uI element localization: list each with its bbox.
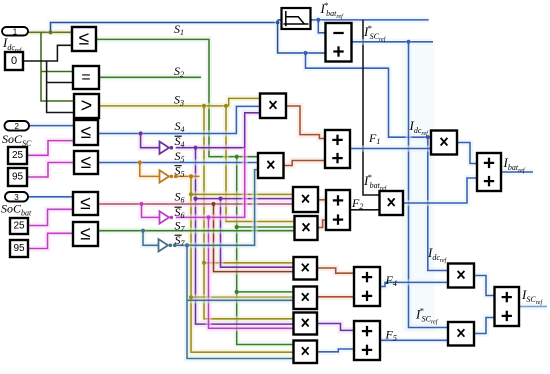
svg-text:25: 25 <box>13 221 25 232</box>
junction s7bar-down <box>185 243 189 247</box>
sum ISC <box>495 287 520 326</box>
constant 0 <box>5 52 23 70</box>
wire S6 to NOT3 <box>142 204 160 217</box>
product XD3 <box>294 313 318 335</box>
wire S4bar branch down <box>196 148 294 324</box>
wire XE1 out <box>474 276 495 296</box>
sum F4 <box>354 267 380 306</box>
wire S6 <box>98 201 293 207</box>
constant 25 bat <box>10 218 28 234</box>
junction s1-d2 <box>235 290 239 294</box>
wire S5 <box>98 159 258 165</box>
svg-text:95: 95 <box>12 172 24 183</box>
svg-text:≤: ≤ <box>81 152 91 173</box>
wire S1 branch down <box>237 157 295 345</box>
wire F2 out <box>350 209 380 211</box>
wire XE2 out <box>474 318 495 334</box>
NOT gate S6bar <box>160 211 174 223</box>
sum F1 <box>325 130 350 168</box>
wire C1 out <box>318 197 326 203</box>
junction idc-top <box>48 30 52 34</box>
wire zero vertical to EQ and GT <box>47 61 74 113</box>
junction s5-not <box>138 160 142 164</box>
junction ibat-minus <box>316 18 320 22</box>
wire D3 out <box>317 324 354 331</box>
wire XB out <box>284 161 326 166</box>
constant 95 SC <box>8 168 27 186</box>
sum F5 <box>354 321 380 360</box>
product XC2 <box>295 216 318 240</box>
product XD2 <box>294 287 318 310</box>
wire C2 out <box>318 220 327 228</box>
wire S7 <box>98 228 295 234</box>
comparator LE4 (SoCsc<=95) <box>74 151 98 174</box>
junction idc-plus <box>303 51 307 55</box>
svg-text:>: > <box>81 95 93 117</box>
svg-text:=: = <box>81 69 90 86</box>
wire c25b to LE5 <box>28 209 73 225</box>
wire S3 branch down <box>204 106 295 319</box>
product XB <box>258 153 284 178</box>
junction idc-xf1 <box>426 135 430 139</box>
comparator GT (Idc>0) <box>74 94 99 118</box>
junction isc-down <box>406 40 410 44</box>
wire Idc to XE1 <box>428 137 448 270</box>
wire D2 out <box>317 294 354 300</box>
wire filter input stub <box>278 17 282 23</box>
input port 1 <box>2 27 28 36</box>
junction s4bar-down <box>193 146 197 150</box>
wire Idc green vertical to EQ and GT <box>41 32 74 101</box>
junction s4-not <box>139 131 143 135</box>
wire S5 to NOT2 <box>140 163 160 177</box>
junction s3-c2 <box>224 104 228 108</box>
wire F4 out <box>380 282 448 286</box>
product XE2 <box>448 322 474 346</box>
wire S7 to NOT4 <box>143 231 159 246</box>
comparator LE6 (SoCbat<=95) <box>73 222 98 246</box>
wire port3 to LE5 <box>28 194 73 200</box>
svg-text:≤: ≤ <box>80 193 90 214</box>
wire XA out <box>286 106 325 139</box>
junction s6-darkred <box>211 202 215 206</box>
NOT gate S5bar <box>160 170 174 182</box>
wire S7bar <box>175 170 258 246</box>
wire port2 to LE3 <box>29 122 74 128</box>
junction s5bar-d2 <box>189 295 193 299</box>
highlight wash right column <box>402 44 435 332</box>
junction not4-out <box>173 244 177 248</box>
product XC1 <box>293 187 318 212</box>
product XD4 <box>294 341 318 364</box>
wire XF1 out <box>457 143 477 164</box>
wire Ibat out <box>501 169 533 175</box>
junction s4bar-d1 <box>218 197 222 201</box>
wire D1 out <box>317 268 354 273</box>
product XF2 <box>380 191 404 215</box>
junction s6bar-down <box>206 215 210 219</box>
wire S7bar branch down <box>187 245 294 358</box>
svg-text:25: 25 <box>12 150 24 161</box>
junction s5bar-down <box>189 174 193 178</box>
wire S1 <box>96 39 258 156</box>
comparator EQ (Idc=0) <box>73 66 99 89</box>
wire Idc up to top rail <box>51 23 278 33</box>
wire S4 <box>98 106 260 133</box>
junction s1-c2 <box>235 225 239 229</box>
sum F2 <box>326 190 350 230</box>
comparator LE3 (SoCsc<=25) <box>74 120 98 145</box>
svg-text:≤: ≤ <box>79 29 89 50</box>
wire ISC out <box>519 303 547 309</box>
wire F5 out <box>380 337 448 343</box>
junction s3-d1 <box>202 261 206 265</box>
wire filter out Ibat* <box>311 17 429 23</box>
junction not2-out <box>174 175 178 179</box>
wire XF2 out <box>403 178 477 203</box>
svg-text:95: 95 <box>13 243 25 254</box>
wire S6bar <box>176 148 245 218</box>
svg-text:1: 1 <box>13 27 18 36</box>
comparator LE5 (SoCbat<=25) <box>73 192 98 215</box>
sum Ibat <box>477 153 501 191</box>
wire S5bar branch down <box>191 176 294 352</box>
wire S4 to NOT1 <box>141 134 160 148</box>
svg-text:≤: ≤ <box>80 224 90 245</box>
NOT gate S7bar <box>159 239 173 251</box>
wire zero to LE1 lower <box>23 45 72 61</box>
wire S2 <box>99 74 201 80</box>
comparator LE1 (Idc<=0) <box>72 27 96 51</box>
wire D4 out <box>317 349 354 352</box>
NOT gate S4bar <box>160 142 174 154</box>
wire S4bar <box>176 113 260 148</box>
wire ISC* vertical down <box>409 42 449 328</box>
junction s6-not <box>139 202 143 206</box>
wire F1 out <box>350 145 431 151</box>
junction idc-filter <box>276 21 280 25</box>
subtract block ISC* <box>326 23 352 62</box>
wire S3 <box>99 98 260 106</box>
constant 95 bat <box>10 240 28 257</box>
product XF1 <box>431 131 457 155</box>
junction s1-xb <box>235 155 239 159</box>
wire ISC* out <box>352 39 434 45</box>
junction s4bar-d1b <box>193 197 197 201</box>
constant 25 SC <box>8 147 27 164</box>
junction s7-not <box>141 229 145 233</box>
wire c95a to LE4 <box>27 163 74 178</box>
wire Ibat* vertical black <box>363 20 380 195</box>
svg-text:0: 0 <box>11 55 17 67</box>
product XA <box>260 94 286 119</box>
svg-text:3: 3 <box>14 193 19 202</box>
product XD1 <box>294 257 318 280</box>
svg-text:2: 2 <box>15 122 20 131</box>
wire S6 branch darkred <box>214 204 294 272</box>
wire S5bar <box>176 173 200 179</box>
wire Idc down to filter input and plus <box>278 20 326 53</box>
svg-text:≤: ≤ <box>81 122 91 143</box>
input port 3 <box>5 192 28 202</box>
wire S6bar branch down <box>209 217 294 328</box>
wire Ibat* to minus input <box>318 20 325 33</box>
junction s5bar-c1 <box>189 192 193 196</box>
junction s3-main <box>202 104 206 108</box>
low-pass filter block <box>282 8 311 29</box>
input port 2 <box>5 121 30 131</box>
wire Idc branch down-right <box>306 53 432 137</box>
wire Idc from port1 to LE1 <box>28 29 72 35</box>
product XE1 <box>448 264 474 288</box>
wire c95b to LE6 <box>29 233 73 248</box>
wire c25a to LE3 <box>27 141 74 156</box>
